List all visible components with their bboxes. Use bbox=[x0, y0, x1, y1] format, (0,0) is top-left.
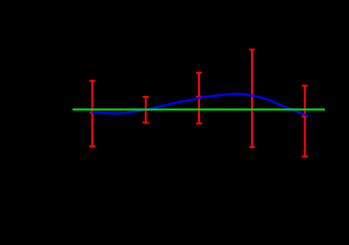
data point marker 3 bbox=[196, 94, 202, 100]
data point marker 1 bbox=[90, 110, 96, 116]
green zero reference line bbox=[73, 108, 326, 110]
data point marker 5 bbox=[302, 113, 308, 119]
error bar 1 bbox=[89, 81, 95, 147]
error bar 4 bbox=[249, 49, 254, 147]
error bar 2 bbox=[143, 97, 149, 123]
data point marker 4 bbox=[249, 93, 255, 99]
blue fit curve bbox=[92, 94, 308, 117]
error bar 3 bbox=[196, 73, 202, 124]
data point marker 2 bbox=[143, 107, 149, 113]
error bar 5 bbox=[302, 86, 308, 157]
